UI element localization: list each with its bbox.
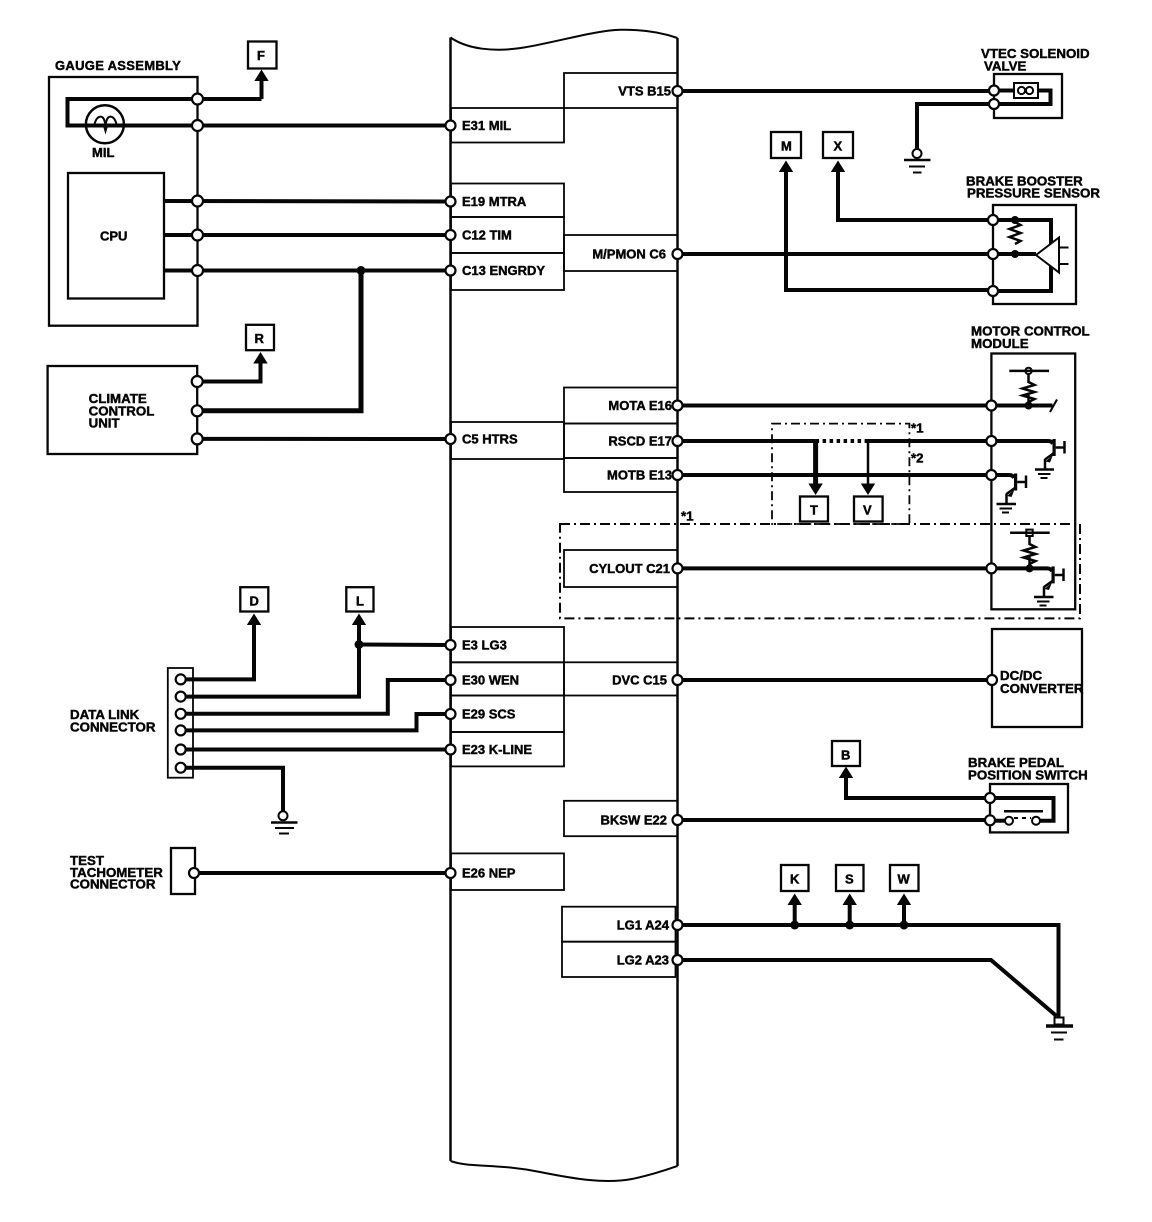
svg-text:R: R bbox=[255, 331, 265, 346]
svg-text:POSITION SWITCH: POSITION SWITCH bbox=[968, 768, 1088, 783]
svg-text:C12 TIM: C12 TIM bbox=[462, 228, 512, 243]
svg-text:CYLOUT C21: CYLOUT C21 bbox=[589, 561, 670, 576]
svg-text:F: F bbox=[257, 48, 265, 63]
svg-text:M: M bbox=[781, 139, 792, 154]
svg-text:VTS B15: VTS B15 bbox=[618, 84, 671, 99]
svg-text:VALVE: VALVE bbox=[984, 59, 1026, 74]
svg-text:PRESSURE SENSOR: PRESSURE SENSOR bbox=[967, 186, 1100, 201]
svg-text:DVC C15: DVC C15 bbox=[612, 673, 667, 688]
svg-text:MOTA E16: MOTA E16 bbox=[608, 398, 672, 413]
svg-text:T: T bbox=[810, 503, 818, 518]
svg-text:E31 MIL: E31 MIL bbox=[462, 118, 511, 133]
svg-text:E19 MTRA: E19 MTRA bbox=[462, 194, 527, 209]
svg-text:B: B bbox=[841, 748, 850, 763]
svg-text:E30 WEN: E30 WEN bbox=[462, 673, 519, 688]
svg-text:MOTB E13: MOTB E13 bbox=[607, 468, 672, 483]
svg-text:*1: *1 bbox=[911, 421, 924, 436]
svg-text:W: W bbox=[898, 872, 911, 887]
svg-text:E23 K-LINE: E23 K-LINE bbox=[462, 742, 532, 757]
svg-text:CONNECTOR: CONNECTOR bbox=[70, 877, 156, 892]
svg-text:MODULE: MODULE bbox=[971, 336, 1029, 351]
svg-text:CPU: CPU bbox=[100, 229, 127, 244]
svg-text:CONVERTER: CONVERTER bbox=[1000, 681, 1084, 696]
svg-text:E26 NEP: E26 NEP bbox=[462, 866, 516, 881]
svg-text:D: D bbox=[250, 594, 259, 609]
svg-text:M/PMON C6: M/PMON C6 bbox=[592, 247, 666, 262]
svg-text:*2: *2 bbox=[911, 451, 924, 466]
svg-text:*1: *1 bbox=[681, 509, 694, 524]
svg-text:K: K bbox=[790, 872, 800, 887]
svg-text:S: S bbox=[845, 872, 854, 887]
svg-text:UNIT: UNIT bbox=[89, 416, 120, 431]
svg-text:RSCD E17: RSCD E17 bbox=[608, 434, 672, 449]
svg-text:X: X bbox=[834, 139, 843, 154]
svg-text:GAUGE ASSEMBLY: GAUGE ASSEMBLY bbox=[55, 58, 181, 73]
svg-text:C13 ENGRDY: C13 ENGRDY bbox=[462, 263, 545, 278]
svg-text:MIL: MIL bbox=[92, 145, 114, 160]
svg-text:E3 LG3: E3 LG3 bbox=[462, 638, 507, 653]
svg-text:C5 HTRS: C5 HTRS bbox=[462, 432, 518, 447]
svg-text:V: V bbox=[863, 503, 872, 518]
svg-text:LG2 A23: LG2 A23 bbox=[617, 953, 669, 968]
svg-text:LG1 A24: LG1 A24 bbox=[617, 918, 670, 933]
svg-text:BKSW E22: BKSW E22 bbox=[601, 813, 667, 828]
svg-text:E29 SCS: E29 SCS bbox=[462, 707, 516, 722]
svg-text:L: L bbox=[356, 594, 364, 609]
svg-text:CONNECTOR: CONNECTOR bbox=[70, 720, 156, 735]
